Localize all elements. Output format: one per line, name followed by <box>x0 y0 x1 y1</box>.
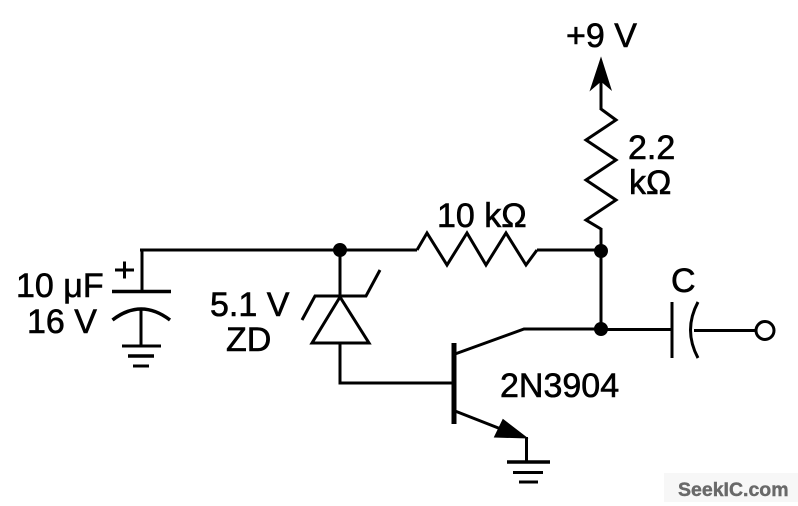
svg-text:16 V: 16 V <box>27 303 97 341</box>
transistor Q1 2N3904 base bar <box>452 343 457 424</box>
wire: node C to output cap <box>601 328 672 331</box>
svg-text:kΩ: kΩ <box>629 164 671 202</box>
capacitor plus polarity mark <box>115 262 134 279</box>
node B junction dot <box>594 244 608 258</box>
label 5.1 V ZD <box>210 286 290 359</box>
capacitor top plate <box>112 290 171 294</box>
svg-text:ZD: ZD <box>226 321 271 359</box>
transistor emitter lead <box>455 411 506 431</box>
electrolytic capacitor 10uF input: lead from rail <box>141 250 144 292</box>
zener diode ZD: lead from node A <box>339 250 342 297</box>
svg-text:2.2: 2.2 <box>628 129 675 167</box>
svg-text:C: C <box>671 262 696 300</box>
label 10 uF 16 V <box>16 267 104 341</box>
svg-text:10 μF: 10 μF <box>16 267 104 305</box>
transistor collector lead <box>455 329 601 354</box>
+9V supply arrow <box>591 58 612 110</box>
label 2.2 kOhm <box>628 129 675 202</box>
svg-text:5.1 V: 5.1 V <box>210 286 290 324</box>
svg-text:+9 V: +9 V <box>566 17 637 55</box>
output capacitor C left plate <box>671 302 674 358</box>
capacitor curved bottom plate <box>113 309 171 320</box>
wire: cap to ground <box>140 309 143 347</box>
zener triangle <box>312 297 369 343</box>
emitter arrowhead <box>495 420 528 439</box>
output terminal (open circle) <box>756 322 774 340</box>
svg-text:SeekIC.com: SeekIC.com <box>678 479 789 501</box>
wire: top rail (cap to 10k) <box>140 249 417 252</box>
wire: 2.2k bottom to node B <box>600 228 603 252</box>
ground symbol (emitter) <box>507 462 550 482</box>
zener cathode bar with bent ends <box>302 270 380 320</box>
resistor 2.2 kOhm <box>586 109 616 229</box>
wire: emitter to ground <box>525 437 528 461</box>
watermark background tint <box>664 473 798 502</box>
svg-text:10 kΩ: 10 kΩ <box>437 197 527 235</box>
ground symbol (input cap) <box>122 346 161 366</box>
wire: 10k to node B <box>537 249 601 252</box>
wire: node B down to node C <box>600 251 603 329</box>
node C junction dot (collector) <box>594 322 608 336</box>
wire: zener anode down and to transistor base <box>340 343 454 383</box>
wire: output cap to terminal <box>694 329 756 332</box>
output capacitor C curved right plate <box>691 302 699 358</box>
svg-text:2N3904: 2N3904 <box>500 367 619 405</box>
node A junction dot <box>333 243 347 257</box>
resistor R 10 kOhm <box>417 233 537 265</box>
